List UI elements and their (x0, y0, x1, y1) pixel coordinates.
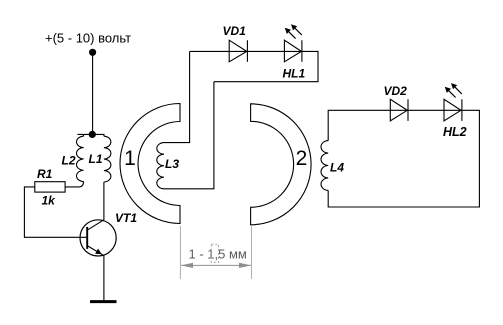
svg-text:1: 1 (124, 147, 136, 170)
inductor L4 (321, 141, 328, 191)
svg-text:L4: L4 (330, 161, 344, 175)
supply terminal dot (89, 49, 96, 56)
wire collector (103, 182, 105, 220)
svg-text:VD1: VD1 (223, 24, 247, 38)
diode VD2 (390, 99, 407, 121)
wire L3 top lead (164, 51, 190, 142)
cursor artifact box (211, 244, 218, 262)
inductor L1 (104, 136, 111, 182)
svg-text:HL1: HL1 (283, 67, 306, 81)
resistor R1 (35, 182, 65, 192)
wire emitter down (103, 256, 105, 301)
core half 1 (left C) (120, 104, 180, 224)
wire R1 left to base (24, 187, 87, 237)
transistor VT1 (80, 220, 116, 256)
LED HL1 (284, 40, 301, 62)
dimension line with arrows (181, 264, 251, 266)
diode VD1 (229, 40, 247, 62)
svg-text:VT1: VT1 (115, 211, 137, 225)
dimension extension lines (180, 226, 251, 279)
inductor L3 (157, 143, 164, 189)
svg-text:HL2: HL2 (443, 125, 467, 139)
LED HL2 (444, 99, 461, 121)
wire top loop (190, 51, 318, 81)
wire L3 bottom lead (164, 82, 214, 189)
svg-text:L3: L3 (165, 157, 179, 171)
svg-text:2: 2 (296, 147, 308, 170)
wire right loop (328, 110, 479, 207)
svg-text:+(5 - 10) вольт: +(5 - 10) вольт (45, 31, 131, 46)
ground (90, 300, 117, 303)
inductor L2 (77, 136, 84, 181)
wire top bar of L1 L2 (77, 133, 104, 135)
svg-text:L1: L1 (89, 152, 103, 166)
svg-text:L2: L2 (62, 154, 76, 168)
svg-text:VD2: VD2 (384, 84, 408, 98)
core half 2 (right C) (251, 104, 311, 225)
svg-text:1 - 1,5 мм: 1 - 1,5 мм (189, 246, 247, 261)
svg-text:R1: R1 (37, 167, 53, 181)
junction node dot (89, 131, 96, 138)
wire supply down (92, 52, 94, 134)
svg-text:1k: 1k (42, 194, 57, 208)
